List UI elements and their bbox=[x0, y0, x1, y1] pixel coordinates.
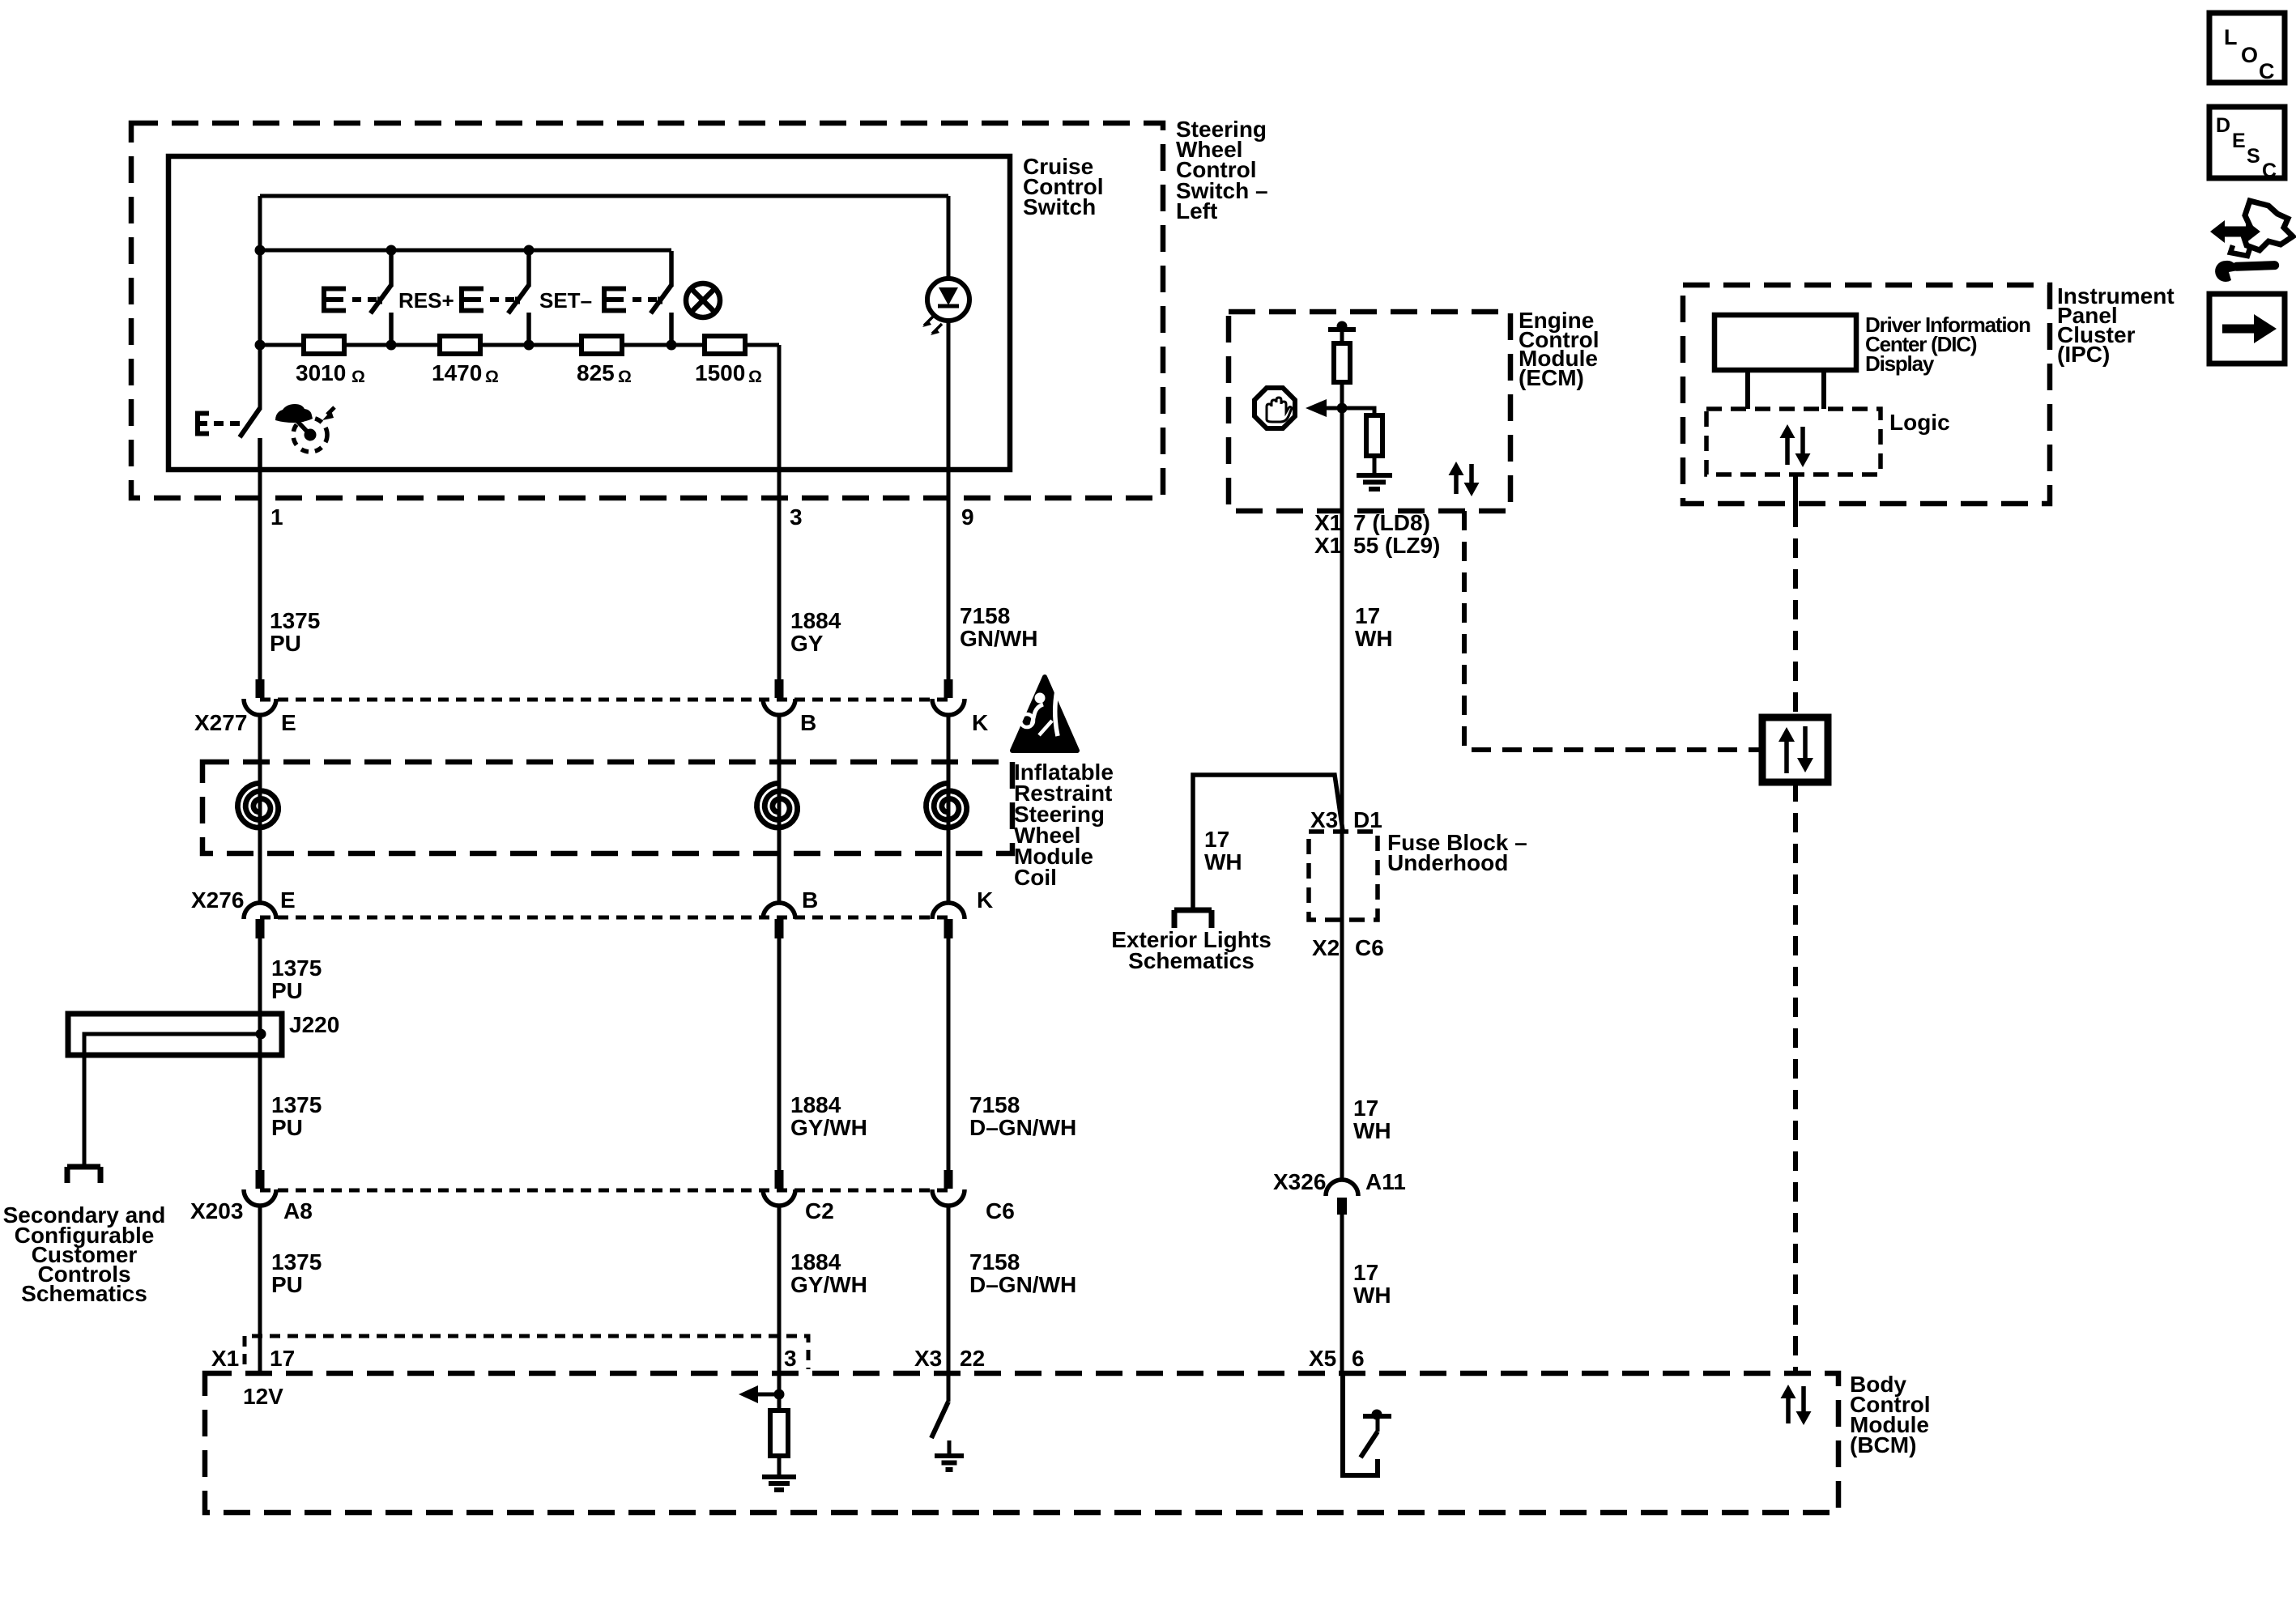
svg-text:Ω: Ω bbox=[351, 368, 365, 386]
ECM ground bbox=[1357, 456, 1392, 489]
module box: Instrument Panel Cluster (dashed) bbox=[1683, 285, 2050, 504]
wire label circuit 1375 PU (second) bbox=[271, 955, 322, 1003]
wire through coil K bbox=[947, 715, 951, 904]
svg-text:X3: X3 bbox=[1310, 807, 1338, 832]
connector X203 dotted line bbox=[260, 1189, 948, 1193]
svg-text:7158: 7158 bbox=[960, 603, 1010, 628]
svg-text:D–GN/WH: D–GN/WH bbox=[969, 1272, 1076, 1297]
svg-text:1884: 1884 bbox=[790, 1092, 841, 1117]
svg-text:B: B bbox=[800, 710, 816, 735]
wire label circuit 7158 D-GN/WH bbox=[969, 1092, 1076, 1140]
svg-text:1884: 1884 bbox=[790, 1249, 841, 1274]
wire: splice branch inside J220 bbox=[84, 1029, 266, 1167]
bus: IPC to junction box (dashed) bbox=[1793, 508, 1798, 717]
labels X1 17 3 X3 22 X5 6 bbox=[211, 1346, 1365, 1371]
svg-text:C2: C2 bbox=[805, 1198, 834, 1223]
BCM switch to ground (pin 22) bbox=[931, 1402, 948, 1438]
junction box arrows bbox=[1778, 726, 1813, 773]
svg-text:D1: D1 bbox=[1353, 807, 1382, 832]
label: Logic bbox=[1889, 410, 1950, 435]
BCM serial data arrows bbox=[1781, 1385, 1812, 1425]
svg-text:WH: WH bbox=[1355, 626, 1393, 651]
ECM pin labels X1 7 (LD8) / X1 55 (LZ9) bbox=[1314, 510, 1440, 558]
wire label circuit 1884 GY/WH bbox=[790, 1092, 867, 1140]
svg-text:GY: GY bbox=[790, 631, 824, 656]
wires: DIC to logic legs bbox=[1748, 370, 1824, 409]
svg-text:12V: 12V bbox=[243, 1384, 283, 1409]
svg-text:Schematics: Schematics bbox=[21, 1281, 147, 1306]
coil spiral B bbox=[757, 783, 798, 828]
module box: Fuse Block - Underhood (dashed) bbox=[1309, 832, 1378, 920]
wire label circuit 1375 PU (third) bbox=[271, 1092, 322, 1140]
svg-text:Underhood: Underhood bbox=[1387, 850, 1508, 875]
wire 9 mid section bbox=[947, 938, 951, 1170]
svg-text:X5: X5 bbox=[1309, 1346, 1336, 1371]
serial data junction box bbox=[1762, 717, 1828, 782]
module box: steering wheel coil (dashed) bbox=[202, 762, 1012, 853]
label: 1500 ohm bbox=[695, 360, 762, 386]
wire label circuit 7158 D-GN/WH (lower) bbox=[969, 1249, 1076, 1297]
label: Instrument Panel Cluster (IPC) bbox=[2057, 283, 2175, 367]
svg-text:WH: WH bbox=[1353, 1118, 1391, 1143]
label X203 A8 C2 C6 bbox=[190, 1198, 1015, 1223]
svg-text:17: 17 bbox=[1355, 603, 1380, 628]
svg-text:3010: 3010 bbox=[296, 360, 346, 385]
ECM internal supply bar with dot bbox=[1328, 321, 1356, 332]
IPC logic serial data arrows bbox=[1780, 424, 1811, 467]
wire label circuit 1375 PU (fourth) bbox=[271, 1249, 322, 1297]
wire through coil B bbox=[777, 715, 782, 904]
wire label 17 WH (ECM output) bbox=[1355, 603, 1393, 651]
svg-text:1375: 1375 bbox=[271, 1249, 322, 1274]
svg-text:7158: 7158 bbox=[969, 1249, 1020, 1274]
switch RES+ (momentary) bbox=[324, 251, 391, 345]
svg-text:Ω: Ω bbox=[748, 368, 762, 386]
label: Exterior Lights Schematics bbox=[1111, 927, 1272, 973]
wire label circuit 1884 GY/WH (lower) bbox=[790, 1249, 867, 1297]
svg-text:K: K bbox=[972, 710, 988, 735]
connector X1 dotted bracket bbox=[245, 1336, 808, 1369]
svg-text:L: L bbox=[2224, 25, 2238, 49]
component box: DIC display bbox=[1715, 315, 1856, 370]
svg-text:O: O bbox=[2241, 43, 2258, 67]
icon: airbag caution triangle bbox=[1012, 677, 1077, 751]
svg-text:Ω: Ω bbox=[485, 368, 499, 386]
connector X326 pin A11 bbox=[1326, 1180, 1358, 1215]
svg-text:7158: 7158 bbox=[969, 1092, 1020, 1117]
coil spiral K bbox=[926, 783, 967, 828]
off-page connector (exterior lights) bbox=[1174, 910, 1212, 928]
svg-text:6: 6 bbox=[1352, 1346, 1365, 1371]
svg-text:Logic: Logic bbox=[1889, 410, 1950, 435]
connector X203 pin C6 bbox=[932, 1170, 965, 1206]
svg-text:J220: J220 bbox=[289, 1012, 339, 1037]
bus: IPC stub bbox=[1793, 474, 1798, 508]
svg-text:WH: WH bbox=[1204, 849, 1242, 874]
switch SET- (momentary) bbox=[462, 251, 529, 345]
svg-text:Schematics: Schematics bbox=[1128, 948, 1254, 973]
svg-text:PU: PU bbox=[271, 1115, 303, 1140]
connector X277 pin B bbox=[763, 679, 795, 715]
connector X276 pin E bbox=[244, 903, 276, 938]
wire label 17 WH (below fuse block) bbox=[1353, 1096, 1391, 1143]
LED indicator (in line with pin 9 wire) bbox=[922, 196, 969, 679]
pin label 9 bbox=[961, 504, 974, 530]
wire 3 mid section bbox=[777, 938, 782, 1170]
svg-text:3: 3 bbox=[790, 504, 803, 530]
wire: pin 1 riser (top section) bbox=[258, 196, 262, 410]
svg-text:PU: PU bbox=[271, 978, 303, 1003]
label: RES+ bbox=[398, 288, 454, 313]
svg-text:17: 17 bbox=[1353, 1096, 1378, 1121]
icon: arrow box bbox=[2209, 294, 2285, 364]
connector X203 pin A8 bbox=[244, 1170, 276, 1206]
icon: LOC box bbox=[2209, 13, 2285, 83]
svg-text:X326: X326 bbox=[1273, 1169, 1326, 1194]
svg-text:GY/WH: GY/WH bbox=[790, 1272, 867, 1297]
icon: part locator (arrow, part outline, wrench) bbox=[2210, 201, 2293, 282]
connector X277 pin E bbox=[244, 679, 276, 715]
ECM stop-lamp signal arrow bbox=[1306, 399, 1342, 417]
connector X276 pin B bbox=[763, 903, 795, 938]
svg-text:SET–: SET– bbox=[539, 288, 592, 313]
wire 3 to BCM bbox=[777, 1206, 782, 1411]
wire label 17 WH (below X326) bbox=[1353, 1260, 1391, 1308]
svg-text:3: 3 bbox=[784, 1346, 797, 1371]
wire through coil E bbox=[258, 715, 262, 904]
svg-text:Switch: Switch bbox=[1023, 194, 1096, 219]
wire 1 to BCM bbox=[258, 1206, 262, 1373]
lamp symbol (backlight) bbox=[686, 283, 720, 317]
resistor R 825 ohm bbox=[581, 336, 622, 354]
label: Cruise Control Switch bbox=[1023, 154, 1104, 219]
connector X276 pin K bbox=[932, 903, 965, 938]
label J220 bbox=[289, 1012, 339, 1037]
wire: common bus (switch tops) bbox=[260, 249, 671, 253]
svg-text:X203: X203 bbox=[190, 1198, 243, 1223]
svg-text:1375: 1375 bbox=[271, 955, 322, 981]
svg-text:C: C bbox=[2259, 59, 2275, 83]
label: 825 ohm bbox=[577, 360, 632, 386]
svg-text:Display: Display bbox=[1865, 351, 1935, 376]
svg-text:Left: Left bbox=[1176, 198, 1217, 223]
label: 3010 ohm bbox=[296, 360, 365, 386]
svg-text:(IPC): (IPC) bbox=[2057, 342, 2110, 367]
pin label 3 bbox=[790, 504, 803, 530]
bus: junction box to BCM (dashed) bbox=[1793, 782, 1798, 1371]
resistor R 1500 ohm bbox=[705, 336, 745, 354]
label X277 E B K bbox=[194, 710, 988, 735]
off-page connector (secondary controls) bbox=[67, 1167, 100, 1183]
resistor R 1470 ohm bbox=[440, 336, 480, 354]
label: Secondary and Configurable Customer Controls Schematics bbox=[3, 1202, 166, 1306]
svg-text:PU: PU bbox=[271, 1272, 303, 1297]
wire label circuit 7158 GN/WH bbox=[960, 603, 1037, 651]
svg-text:X1: X1 bbox=[211, 1346, 239, 1371]
label: Engine Control Module (ECM) bbox=[1519, 308, 1600, 390]
svg-text:RES+: RES+ bbox=[398, 288, 454, 313]
module box: Engine Control Module (dashed) bbox=[1229, 312, 1510, 511]
ECM pull-up resistor bbox=[1334, 330, 1350, 382]
wire: top loop from pin1 riser to LED riser bbox=[260, 194, 948, 198]
pin label 1 bbox=[270, 504, 283, 530]
svg-text:17: 17 bbox=[1204, 827, 1229, 852]
svg-text:1: 1 bbox=[270, 504, 283, 530]
svg-text:B: B bbox=[802, 887, 818, 913]
icon: hand octagon (stop) bbox=[1254, 388, 1295, 428]
BCM ground (pin 3) bbox=[762, 1456, 796, 1490]
svg-text:X2: X2 bbox=[1312, 935, 1340, 960]
svg-text:A11: A11 bbox=[1365, 1169, 1406, 1194]
svg-text:9: 9 bbox=[961, 504, 974, 530]
svg-text:GY/WH: GY/WH bbox=[790, 1115, 867, 1140]
wire: resistor ladder line bbox=[260, 343, 779, 347]
BCM wire 3 arrow and dot bbox=[739, 1385, 785, 1403]
svg-text:A8: A8 bbox=[283, 1198, 313, 1223]
label: SET- bbox=[539, 288, 592, 313]
wire 9 to BCM bbox=[947, 1206, 951, 1402]
BCM internal switch (pin 6) bbox=[1343, 1373, 1391, 1475]
ECM junction dot bbox=[1337, 403, 1348, 414]
splice J220 box bbox=[68, 1014, 282, 1055]
label: Driver Information Center (DIC) Display bbox=[1865, 313, 2030, 376]
svg-text:(ECM): (ECM) bbox=[1519, 365, 1584, 390]
svg-text:C: C bbox=[2262, 160, 2277, 182]
svg-text:X1: X1 bbox=[1314, 510, 1342, 535]
bus: ECM to junction box (dashed) bbox=[1464, 511, 1762, 750]
wire: branch to exterior lights bbox=[1193, 775, 1343, 908]
svg-text:WH: WH bbox=[1353, 1283, 1391, 1308]
svg-text:D–GN/WH: D–GN/WH bbox=[969, 1115, 1076, 1140]
wire: pin 3 drop from 1500 ohm bbox=[777, 345, 782, 679]
junction dots on resistor line bbox=[255, 340, 677, 351]
label: Steering Wheel Control Switch - Left bbox=[1176, 117, 1268, 223]
wire 1 through J220 bbox=[258, 938, 262, 1170]
svg-text:1500: 1500 bbox=[695, 360, 745, 385]
svg-text:E: E bbox=[2232, 130, 2246, 152]
connector X203 pin C2 bbox=[763, 1170, 795, 1206]
svg-text:825: 825 bbox=[577, 360, 615, 385]
svg-text:D: D bbox=[2216, 114, 2230, 137]
coil spiral E bbox=[237, 783, 278, 828]
svg-text:C6: C6 bbox=[1355, 935, 1384, 960]
wire label 17 WH (branch) bbox=[1204, 827, 1242, 874]
svg-text:1884: 1884 bbox=[790, 608, 841, 633]
connector X277 pin K bbox=[932, 679, 965, 715]
BCM pull-down resistor (pin 3) bbox=[770, 1411, 788, 1456]
svg-text:C6: C6 bbox=[986, 1198, 1015, 1223]
labels X3 D1 X2 C6 bbox=[1310, 807, 1384, 960]
svg-text:Coil: Coil bbox=[1014, 865, 1057, 890]
svg-text:GN/WH: GN/WH bbox=[960, 626, 1037, 651]
resistor R 3010 ohm bbox=[304, 336, 344, 354]
svg-text:X276: X276 bbox=[191, 887, 244, 913]
BCM ground (pin 22) bbox=[935, 1440, 964, 1470]
svg-text:(BCM): (BCM) bbox=[1850, 1432, 1916, 1457]
logic box (dashed) bbox=[1706, 409, 1881, 474]
icon: cruise control (car over speedometer with arrow) bbox=[275, 404, 334, 452]
wire label circuit 1884 GY bbox=[790, 608, 841, 656]
ECM wire down from resistor bbox=[1340, 382, 1344, 1181]
svg-text:K: K bbox=[977, 887, 993, 913]
switch ON-OFF with lamp (momentary) bbox=[604, 251, 671, 345]
svg-text:Ω: Ω bbox=[618, 368, 632, 386]
label: Body Control Module (BCM) bbox=[1850, 1372, 1931, 1457]
wire: ECM signal into BCM bbox=[1340, 1215, 1344, 1373]
wire: pin 1 drop below box bbox=[258, 470, 262, 679]
label: 1470 ohm bbox=[432, 360, 499, 386]
label: Fuse Block - Underhood bbox=[1387, 830, 1527, 875]
svg-text:17: 17 bbox=[1353, 1260, 1378, 1285]
svg-text:X1: X1 bbox=[1314, 533, 1342, 558]
svg-text:E: E bbox=[281, 710, 296, 735]
svg-text:1470: 1470 bbox=[432, 360, 482, 385]
component box: Cruise Control Switch (solid) bbox=[168, 156, 1010, 470]
label X276 E B K bbox=[191, 887, 993, 913]
icon: DESC box bbox=[2209, 107, 2285, 182]
svg-text:22: 22 bbox=[960, 1346, 985, 1371]
svg-text:7 (LD8): 7 (LD8) bbox=[1353, 510, 1430, 535]
label: Inflatable Restraint Steering Wheel Module Coil bbox=[1014, 760, 1114, 890]
svg-text:PU: PU bbox=[270, 631, 301, 656]
label X326 A11 bbox=[1273, 1169, 1406, 1194]
svg-text:1375: 1375 bbox=[270, 608, 320, 633]
module box: Body Control Module (dashed) bbox=[205, 1373, 1838, 1513]
switch ON/OFF cruise main (bottom left) bbox=[198, 408, 260, 470]
module box: Steering Wheel Control Switch - Left (dashed) bbox=[131, 123, 1163, 498]
wire label circuit 1375 PU (upper) bbox=[270, 608, 320, 656]
svg-text:1375: 1375 bbox=[271, 1092, 322, 1117]
junction dots on bus bbox=[255, 245, 535, 256]
svg-text:17: 17 bbox=[270, 1346, 295, 1371]
ECM serial data arrows bbox=[1449, 462, 1480, 496]
label 12V bbox=[243, 1384, 283, 1409]
ECM sense resistor to ground bbox=[1342, 408, 1382, 456]
svg-text:X277: X277 bbox=[194, 710, 247, 735]
svg-text:55 (LZ9): 55 (LZ9) bbox=[1353, 533, 1440, 558]
svg-text:X3: X3 bbox=[914, 1346, 942, 1371]
connector X277 dotted line bbox=[260, 698, 948, 702]
svg-text:E: E bbox=[280, 887, 296, 913]
connector X276 dotted line bbox=[260, 916, 948, 920]
svg-text:S: S bbox=[2247, 145, 2260, 168]
